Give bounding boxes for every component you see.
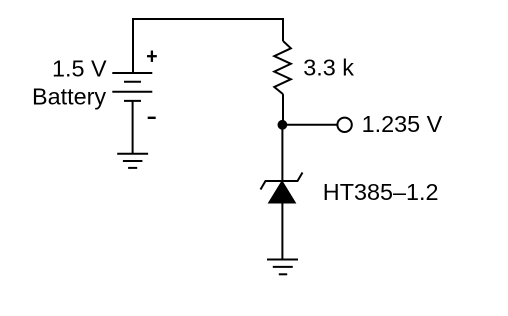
svg-text:1.5 V: 1.5 V [52, 55, 107, 81]
battery B1 plates [112, 73, 152, 101]
wire node to zener cathode [281, 125, 283, 181]
wire zener anode to ground [281, 203, 283, 260]
ground (battery) [117, 154, 148, 168]
wire node to output terminal [282, 124, 337, 126]
wire battery negative to ground [132, 101, 134, 154]
node junction dot [278, 120, 288, 130]
wire resistor to node [282, 94, 284, 125]
resistor R1 3.3 k [274, 41, 291, 94]
svg-text:HT385–1.2: HT385–1.2 [323, 179, 439, 205]
svg-text:3.3 k: 3.3 k [303, 54, 354, 80]
battery plus sign [147, 51, 157, 62]
zener diode D1 anode triangle [269, 181, 296, 203]
battery minus sign [148, 117, 156, 119]
zener diode D1 cathode bar with bent ends [261, 173, 303, 190]
wire top rail from battery to resistor [133, 19, 283, 73]
svg-text:1.235 V: 1.235 V [362, 111, 443, 137]
ground (zener) [267, 260, 298, 275]
output terminal open circle [337, 118, 351, 132]
svg-text:Battery: Battery [32, 83, 106, 109]
